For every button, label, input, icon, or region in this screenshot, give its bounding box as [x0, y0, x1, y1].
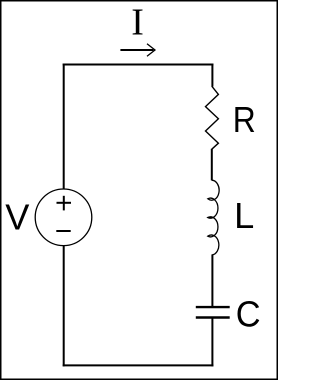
- wire right bottom (capacitor to bottom corner): [211, 318, 213, 366]
- wire bottom: [63, 364, 214, 366]
- wire right upper (top corner to resistor): [211, 64, 213, 87]
- svg-text:C: C: [236, 295, 261, 335]
- resistor R: [206, 86, 219, 149]
- capacitor C: [196, 307, 230, 317]
- current arrow I: [120, 44, 155, 57]
- wire right lower (inductor to capacitor): [211, 255, 213, 307]
- svg-text:L: L: [234, 195, 254, 236]
- wire right mid (resistor to inductor): [211, 149, 213, 181]
- inductor L: [208, 180, 219, 255]
- wire left lower (source to bottom corner): [63, 246, 65, 367]
- wire left upper (top corner to source): [63, 64, 65, 190]
- voltage source V: [35, 189, 92, 246]
- wire top: [63, 64, 214, 66]
- svg-text:V: V: [5, 196, 29, 237]
- svg-text:R: R: [233, 100, 256, 140]
- svg-text:I: I: [131, 2, 144, 44]
